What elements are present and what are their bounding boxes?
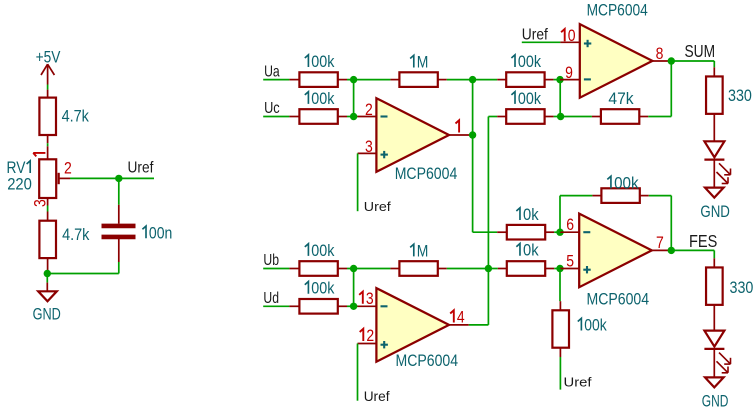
svg-text:Uc: Uc xyxy=(264,100,280,117)
junction U1 output xyxy=(469,131,476,138)
pin xyxy=(639,116,648,118)
svg-text:Ua: Ua xyxy=(264,63,280,80)
resistor 4.7k upper xyxy=(39,98,56,135)
pin 2 stub xyxy=(358,116,377,118)
wire pin6 to 100k feedback xyxy=(560,196,592,233)
svg-text:00k: 00k xyxy=(584,316,607,335)
resistor 47k (SUM feedback) xyxy=(601,109,639,124)
junction node C2 xyxy=(485,265,492,272)
wire pin 3 to Uref xyxy=(357,153,359,211)
pin number 14 xyxy=(450,308,464,327)
pin 9 stub xyxy=(560,79,580,81)
wire node A to 1M xyxy=(347,79,390,81)
resistor 100k (to pin 9) xyxy=(506,72,544,87)
pin xyxy=(545,79,554,81)
wire LED1 to GND xyxy=(713,161,715,188)
refdes label RV1 xyxy=(7,158,31,177)
wire Ud input stub xyxy=(263,305,289,307)
output pin 8 xyxy=(652,60,671,62)
svg-text:3: 3 xyxy=(366,289,374,308)
pin xyxy=(545,116,554,118)
svg-text:+5V: +5V xyxy=(36,47,61,66)
pin xyxy=(498,268,507,270)
wire 100k feedback to FES output xyxy=(649,196,672,251)
wire RV1 to R2 xyxy=(47,206,49,212)
junction pin 5 node xyxy=(556,265,563,272)
svg-text:00k: 00k xyxy=(614,173,639,192)
pin xyxy=(47,90,49,98)
wire U1 output vertical xyxy=(472,80,474,233)
resistor 4.7k lower xyxy=(39,221,56,258)
resistor 330 (SUM LED) xyxy=(706,76,723,113)
svg-text:6: 6 xyxy=(566,215,574,234)
pin xyxy=(47,135,49,143)
ground symbol bottom right xyxy=(705,377,724,387)
pin number 1 (RV1) xyxy=(33,153,45,157)
svg-text:2: 2 xyxy=(366,326,374,345)
svg-text:2: 2 xyxy=(365,100,373,119)
wire net GND (left) xyxy=(47,274,119,283)
wire +5V to R1 xyxy=(47,85,49,90)
wire FES output xyxy=(671,250,714,258)
pin xyxy=(592,116,601,118)
svg-text:8: 8 xyxy=(656,44,664,63)
pin xyxy=(390,268,399,270)
resistor 1M (U1 feedback) xyxy=(399,72,437,87)
wire 10k to pin5 node xyxy=(554,268,560,270)
pin xyxy=(47,198,49,206)
ground symbol left xyxy=(38,291,57,301)
svg-text:00k: 00k xyxy=(311,89,335,108)
value label 1M xyxy=(410,53,428,72)
wire Ub input stub xyxy=(263,268,289,270)
svg-text:GND: GND xyxy=(702,392,729,411)
junction node A2 xyxy=(350,265,357,272)
pin xyxy=(497,231,507,233)
resistor 1M (U2 feedback) xyxy=(399,261,437,276)
pin xyxy=(338,116,347,118)
output pin 14 xyxy=(449,324,469,326)
wire node B to pin 2 xyxy=(347,80,358,117)
LED LED1 xyxy=(704,141,730,183)
svg-text:Ud: Ud xyxy=(263,290,279,307)
op-amp U4 (MCP6004 FES) xyxy=(579,214,652,288)
value label 100k xyxy=(305,279,335,298)
pin xyxy=(438,268,447,270)
pin number 1 xyxy=(456,120,460,132)
resistor 100k (Uc input) xyxy=(299,109,337,124)
wire 330 to LED1 xyxy=(713,114,715,141)
svg-text:0k: 0k xyxy=(523,241,539,260)
pin xyxy=(47,212,49,222)
LED LED2 xyxy=(704,331,730,373)
value label 100k xyxy=(511,89,541,108)
svg-text:M: M xyxy=(417,241,429,260)
svg-text:Uref: Uref xyxy=(522,27,549,44)
wire U2 output to node C2 xyxy=(469,324,489,326)
resistor 100k (to pin 9 lower) xyxy=(506,109,544,124)
svg-text:4: 4 xyxy=(457,308,465,327)
pin xyxy=(46,283,48,292)
svg-text:Uref: Uref xyxy=(564,375,592,390)
junction SUM output node xyxy=(668,57,675,64)
resistor 10k (to pin 5) xyxy=(507,261,545,276)
svg-text:330: 330 xyxy=(730,278,754,297)
svg-text:00k: 00k xyxy=(311,241,335,260)
pin xyxy=(289,268,299,270)
output pin 7 xyxy=(652,249,672,251)
pin xyxy=(47,258,49,273)
wire Uc input stub xyxy=(263,116,289,118)
resistor 100k (Ub input) xyxy=(299,261,337,276)
pin xyxy=(592,195,601,197)
pin number 12 xyxy=(360,326,374,345)
value label 1M xyxy=(410,241,428,260)
wire net Uref (left) xyxy=(70,178,154,204)
junction node B2 xyxy=(350,303,357,310)
pin 5 stub xyxy=(560,268,579,270)
svg-text:47k: 47k xyxy=(608,89,634,108)
svg-text:FES: FES xyxy=(689,231,717,251)
wire to pin9 node xyxy=(554,79,560,81)
wire pin 12 to Uref xyxy=(357,344,359,401)
pin xyxy=(289,116,299,118)
wire node B2 to pin 13 xyxy=(347,269,358,307)
wire 100k to Uref xyxy=(559,357,561,390)
pin xyxy=(47,146,49,159)
value label 100k xyxy=(305,52,335,71)
resistor 100k (Ua input) xyxy=(299,72,337,87)
pin xyxy=(338,79,347,81)
svg-text:0k: 0k xyxy=(523,205,539,224)
svg-text:GND: GND xyxy=(700,202,730,221)
pin xyxy=(713,67,715,76)
svg-text:MCP6004: MCP6004 xyxy=(396,351,459,370)
wire 1M to 100k xyxy=(447,79,497,81)
svg-text:MCP6004: MCP6004 xyxy=(587,1,648,20)
svg-text:Uref: Uref xyxy=(364,388,390,404)
svg-text:Ub: Ub xyxy=(263,252,279,269)
pin 10 stub xyxy=(560,41,579,43)
wire 330 to LED2 xyxy=(713,305,715,331)
pin xyxy=(497,116,506,118)
value label 100k xyxy=(578,316,607,335)
wire U1 out to 10k xyxy=(473,231,498,233)
junction 47k node xyxy=(557,113,564,120)
pin xyxy=(545,231,554,233)
wire pin5 to 100k vertical xyxy=(559,269,561,302)
svg-text:2: 2 xyxy=(64,158,72,177)
pin number 10 xyxy=(561,26,576,45)
wire Uref to pin 10 xyxy=(522,41,561,43)
pin xyxy=(438,79,447,81)
resistor 100k (Ud input) xyxy=(299,299,337,314)
value label 100k xyxy=(305,89,335,108)
pin xyxy=(640,195,649,197)
svg-text:3: 3 xyxy=(30,199,49,207)
pin number 13 xyxy=(359,289,373,308)
svg-text:M: M xyxy=(417,53,429,72)
power symbol +5V xyxy=(41,64,54,84)
svg-text:4.7k: 4.7k xyxy=(62,107,90,126)
svg-text:7: 7 xyxy=(656,233,664,252)
wire SUM output xyxy=(671,61,714,67)
capacitor 100n xyxy=(102,205,136,262)
pin xyxy=(289,79,299,81)
svg-text:00k: 00k xyxy=(311,279,335,298)
svg-text:Uref: Uref xyxy=(364,199,391,214)
wire Ua input stub xyxy=(263,79,289,81)
pin xyxy=(713,258,715,267)
svg-text:220: 220 xyxy=(7,175,32,194)
wire node A2 to 1M xyxy=(347,268,390,270)
wire LED2 to GND xyxy=(713,350,715,378)
value label 100k xyxy=(607,173,639,192)
value label 100k xyxy=(305,241,335,260)
pin 6 stub xyxy=(560,231,579,233)
pin xyxy=(559,348,561,357)
wire 1M to node C2 xyxy=(447,268,498,270)
junction node C1 xyxy=(469,76,476,83)
pin xyxy=(497,79,506,81)
op-amp U1 (MCP6004 A) xyxy=(376,98,449,172)
value label 10k xyxy=(516,205,539,224)
value label 100k xyxy=(511,52,541,71)
junction pin 9 node xyxy=(556,76,563,83)
svg-text:GND: GND xyxy=(33,305,61,324)
op-amp U2 (MCP6004 B) xyxy=(376,288,449,362)
resistor 100k (pin 5 to Uref) xyxy=(552,310,569,347)
pin 13 stub xyxy=(358,305,377,307)
wire node C2 vertical xyxy=(488,117,497,325)
svg-text:00n: 00n xyxy=(149,223,172,242)
resistor 330 (FES LED) xyxy=(706,267,723,304)
pin xyxy=(559,301,561,310)
pin xyxy=(289,305,299,307)
svg-text:5: 5 xyxy=(566,252,574,271)
svg-text:00k: 00k xyxy=(518,89,542,108)
svg-text:MCP6004: MCP6004 xyxy=(395,164,458,183)
wire cap to GND xyxy=(118,262,120,274)
junction Uref left xyxy=(115,175,122,182)
junction FES output node xyxy=(668,247,675,254)
junction pin 6 node xyxy=(556,229,563,236)
pin xyxy=(338,305,347,307)
pin xyxy=(545,268,554,270)
output pin 1 xyxy=(449,134,473,136)
pin xyxy=(390,79,399,81)
ground symbol top right xyxy=(705,188,724,198)
pin 12 stub xyxy=(358,343,377,345)
potentiometer RV1 xyxy=(39,159,70,198)
pin 3 stub xyxy=(358,152,377,154)
value label 100n xyxy=(142,223,172,242)
wire 47k to SUM output xyxy=(648,61,671,117)
svg-text:SUM: SUM xyxy=(685,41,716,61)
svg-text:Uref: Uref xyxy=(128,160,154,177)
svg-text:00k: 00k xyxy=(518,52,542,71)
pin xyxy=(338,268,347,270)
value label 10k xyxy=(516,241,539,260)
svg-text:00k: 00k xyxy=(311,52,335,71)
wire 10k to pin6 node xyxy=(554,231,560,233)
op-amp U3 (MCP6004 SUM) xyxy=(580,24,653,98)
junction GND left xyxy=(44,270,51,277)
junction node A xyxy=(350,76,357,83)
svg-text:4.7k: 4.7k xyxy=(62,225,90,244)
junction node B xyxy=(350,113,357,120)
wire R1 to RV1 xyxy=(47,143,49,146)
wire pin9 node to 47k xyxy=(554,80,592,117)
resistor 10k (to pin 6) xyxy=(507,225,545,240)
resistor 100k (FES feedback) xyxy=(601,188,639,203)
svg-text:MCP6004: MCP6004 xyxy=(587,290,650,309)
svg-text:330: 330 xyxy=(728,86,752,105)
